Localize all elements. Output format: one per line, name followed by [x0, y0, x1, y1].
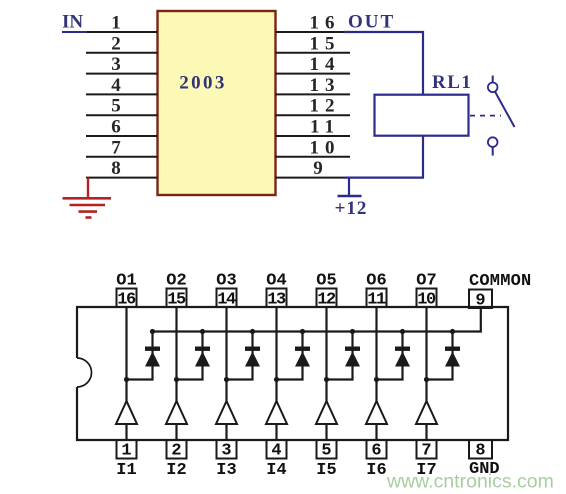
pin 13 box	[267, 289, 287, 308]
diode D7 branch wire	[427, 332, 453, 380]
svg-text:7: 7	[421, 442, 431, 461]
svg-text:15: 15	[167, 291, 186, 310]
svg-text:+12: +12	[335, 198, 368, 219]
svg-text:O1: O1	[116, 272, 136, 291]
pin 5 wire	[86, 114, 158, 116]
svg-text:5: 5	[111, 96, 121, 117]
svg-text:OUT: OUT	[348, 12, 395, 33]
svg-text:I5: I5	[316, 461, 336, 480]
IC ULN2003 pin-1 notch	[77, 358, 92, 387]
COMMON rail wire (pin 9 to diodes)	[153, 308, 481, 332]
svg-text:9: 9	[475, 292, 485, 311]
driver buffer 3 triangle	[216, 401, 237, 424]
pin 6 wire	[86, 135, 158, 137]
svg-text:8: 8	[475, 442, 485, 461]
pin 1 box	[117, 440, 137, 459]
svg-text:4: 4	[271, 442, 281, 461]
diode D1 branch wire	[127, 332, 153, 380]
diode D3 symbol	[245, 347, 260, 367]
svg-text:I4: I4	[266, 461, 286, 480]
svg-text:12: 12	[310, 96, 341, 117]
diode D5 branch wire	[327, 332, 353, 380]
channel 3 junction node	[224, 377, 229, 382]
svg-text:16: 16	[310, 13, 341, 34]
diode D2 symbol	[195, 347, 210, 367]
driver buffer 1 triangle	[116, 401, 137, 424]
diode D5 symbol	[345, 347, 360, 367]
svg-text:I3: I3	[216, 461, 236, 480]
pin 8 wire	[86, 177, 158, 179]
pin 9 box	[469, 290, 492, 309]
ground symbol	[63, 198, 112, 217]
driver buffer 5 triangle	[316, 401, 337, 424]
channel 4 junction node	[274, 377, 279, 382]
pin 16 wire	[276, 31, 346, 33]
svg-text:RL1: RL1	[432, 72, 472, 93]
svg-text:3: 3	[111, 54, 121, 75]
svg-text:11: 11	[367, 291, 386, 310]
svg-text:10: 10	[417, 291, 436, 310]
svg-text:13: 13	[267, 291, 286, 310]
pin 14 wire	[276, 73, 351, 75]
svg-text:5: 5	[321, 442, 331, 461]
pin 6 box	[367, 440, 387, 459]
svg-text:4: 4	[111, 75, 121, 96]
svg-text:13: 13	[310, 75, 341, 96]
diode D6 branch wire	[377, 332, 403, 380]
pin 7 wire	[86, 156, 158, 158]
switch actuator dashed link	[470, 115, 501, 117]
svg-text:O2: O2	[166, 272, 186, 291]
wire IN stub (blue)	[62, 31, 89, 33]
diode D4 branch wire	[277, 332, 303, 380]
svg-text:1: 1	[111, 13, 121, 34]
svg-text:2003: 2003	[179, 73, 227, 94]
channel 5 wire	[325, 307, 327, 440]
svg-text:9: 9	[313, 158, 323, 179]
rail junction node at D6	[400, 329, 405, 334]
rail junction node at D3	[250, 329, 255, 334]
switch top contact circle	[488, 83, 498, 93]
diode D1 symbol	[145, 347, 160, 367]
diode D7 symbol	[445, 347, 460, 367]
switch top terminal stub	[492, 76, 494, 83]
diode D6 symbol	[395, 347, 410, 367]
channel 6 junction node	[374, 377, 379, 382]
channel 7 wire	[425, 307, 427, 440]
pin 9 wire	[276, 177, 346, 179]
svg-text:15: 15	[310, 33, 341, 54]
ground wire (red)	[87, 178, 89, 199]
svg-text:3: 3	[221, 442, 231, 461]
switch bottom terminal stub	[492, 147, 494, 156]
svg-text:I2: I2	[166, 461, 186, 480]
pin 4 wire	[86, 93, 158, 95]
pin 5 box	[317, 440, 337, 459]
IC 2003 body	[158, 11, 276, 195]
pin 1 wire	[87, 31, 158, 33]
wire pin16 to relay (blue)	[344, 32, 423, 95]
pin 12 box	[317, 289, 337, 308]
svg-text:O3: O3	[216, 272, 236, 291]
svg-text:1: 1	[121, 442, 131, 461]
svg-text:10: 10	[310, 137, 341, 158]
svg-text:www.cntronics.com: www.cntronics.com	[386, 471, 554, 493]
svg-text:IN: IN	[62, 12, 83, 33]
power +12 stub wire	[348, 178, 350, 196]
pin 16 box	[117, 289, 137, 308]
pin 4 box	[267, 440, 287, 459]
switch bottom contact circle	[488, 137, 498, 147]
svg-text:16: 16	[117, 291, 136, 310]
svg-text:O7: O7	[416, 272, 436, 291]
diode D3 branch wire	[227, 332, 253, 380]
pin 14 box	[217, 289, 237, 308]
channel 6 wire	[375, 307, 377, 440]
channel 1 wire	[125, 307, 127, 440]
svg-text:6: 6	[371, 442, 381, 461]
pin 12 wire	[276, 114, 351, 116]
pin 7 box	[417, 440, 437, 459]
svg-text:7: 7	[111, 137, 121, 158]
channel 5 junction node	[324, 377, 329, 382]
svg-text:O4: O4	[266, 272, 286, 291]
pin 15 box	[167, 289, 187, 308]
svg-text:COMMON: COMMON	[469, 272, 531, 291]
channel 7 junction node	[424, 377, 429, 382]
svg-text:6: 6	[111, 117, 121, 138]
svg-text:12: 12	[317, 291, 336, 310]
pin 10 wire	[276, 156, 351, 158]
rail junction node at D4	[300, 329, 305, 334]
channel 2 junction node	[174, 377, 179, 382]
svg-text:14: 14	[310, 54, 341, 75]
svg-text:I6: I6	[366, 461, 386, 480]
driver buffer 6 triangle	[366, 401, 387, 424]
wire relay to +12 rail (blue)	[422, 136, 424, 178]
svg-text:14: 14	[217, 291, 236, 310]
rail junction node at D1	[150, 329, 155, 334]
relay RL1 coil	[375, 95, 469, 136]
svg-text:8: 8	[111, 158, 121, 179]
rail junction node at D7	[450, 329, 455, 334]
pin 3 box	[217, 440, 237, 459]
svg-text:I1: I1	[116, 461, 136, 480]
pin 2 box	[167, 440, 187, 459]
switch blade	[495, 92, 514, 127]
svg-text:2: 2	[171, 442, 181, 461]
svg-text:O6: O6	[366, 272, 386, 291]
diode D4 symbol	[295, 347, 310, 367]
rail junction node at D5	[350, 329, 355, 334]
svg-text:2: 2	[111, 33, 121, 54]
channel 4 wire	[275, 307, 277, 440]
pin 8 box	[469, 440, 492, 459]
pin 15 wire	[276, 52, 351, 54]
channel 3 wire	[225, 307, 227, 440]
channel 1 junction node	[124, 377, 129, 382]
wire pin 9 to relay bottom (blue)	[344, 177, 424, 179]
pin 11 box	[367, 289, 387, 308]
power +12 terminal bar	[338, 195, 362, 198]
channel 2 wire	[175, 307, 177, 440]
svg-text:O5: O5	[316, 272, 336, 291]
svg-text:11: 11	[310, 117, 340, 138]
pin 13 wire	[276, 93, 351, 95]
pin 10 box	[417, 289, 437, 308]
IC ULN2003 package body	[77, 307, 508, 440]
driver buffer 7 triangle	[416, 401, 437, 424]
diode D2 branch wire	[177, 332, 203, 380]
rail junction node at D2	[200, 329, 205, 334]
pin 11 wire	[276, 135, 351, 137]
driver buffer 4 triangle	[266, 401, 287, 424]
pin 3 wire	[86, 73, 158, 75]
driver buffer 2 triangle	[166, 401, 187, 424]
pin 2 wire	[86, 52, 158, 54]
